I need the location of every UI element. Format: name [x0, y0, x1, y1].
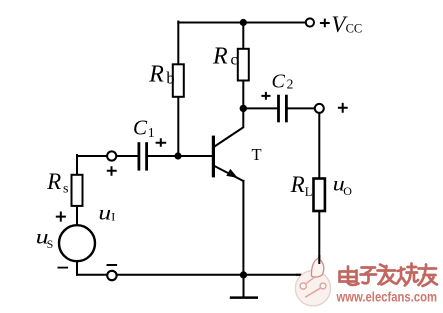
minus sign above bottom terminal [107, 264, 118, 266]
wire R_b branch lower [177, 97, 179, 156]
wire bottom rail end over logo [296, 274, 301, 276]
terminal circle Vcc [306, 18, 314, 26]
plus sign output right [338, 103, 348, 113]
wire R_L bottom [318, 211, 320, 264]
plus sign input top [107, 166, 117, 176]
发 [378, 265, 396, 285]
watermark logo circle [295, 258, 330, 306]
svg-text:R: R [148, 61, 164, 87]
source u_S circle [59, 225, 95, 261]
wire R_c branch upper [242, 23, 244, 49]
resistor R_L [314, 179, 325, 212]
svg-text:C: C [272, 71, 286, 93]
svg-text:R: R [290, 172, 305, 197]
terminal circle input top [107, 151, 116, 160]
wire top rail [178, 22, 305, 24]
svg-text:www.elecfans.com: www.elecfans.com [336, 289, 437, 305]
plus sign right of C1 [156, 138, 167, 147]
junction node base [174, 152, 181, 159]
terminal circle input bottom [107, 271, 116, 280]
wire bottom rail [77, 274, 301, 276]
wire C2 to output terminal [288, 107, 315, 109]
resistor R_s [72, 175, 83, 206]
svg-text:S: S [47, 237, 54, 251]
svg-text:b: b [166, 69, 174, 88]
capacitor C1 [139, 142, 147, 170]
wire R_b branch upper [177, 22, 179, 65]
svg-text:T: T [252, 145, 262, 164]
wire emitter vertical [242, 181, 244, 275]
svg-text:I: I [111, 210, 115, 224]
wire collector lead [215, 108, 243, 146]
烧 [397, 264, 418, 286]
wire input top from corner to terminal [77, 155, 107, 157]
resistor R_b [173, 64, 184, 97]
plus sign left of C2 [261, 92, 270, 100]
wire terminal to C1 plate [116, 155, 137, 157]
transistor T bar [212, 136, 215, 178]
svg-text:R: R [212, 44, 228, 70]
svg-text:2: 2 [287, 77, 294, 92]
wire base horizontal [178, 155, 213, 157]
wire collector node to C2 plate [243, 107, 277, 109]
terminal circle output [315, 104, 324, 113]
wire emitter lead diagonal [215, 166, 244, 181]
junction node emitter-bottom [240, 271, 247, 278]
ground [230, 296, 258, 299]
svg-text:O: O [343, 184, 352, 198]
label +Vcc plus sign [320, 19, 330, 28]
svg-text:L: L [305, 185, 313, 199]
svg-text:1: 1 [148, 126, 155, 141]
svg-text:u: u [98, 202, 111, 224]
wire C1 to base node [148, 155, 178, 157]
wire ground stub [243, 275, 245, 298]
wire left vertical above R_s [76, 155, 78, 175]
minus sign below source [58, 267, 69, 269]
resistor R_c [238, 49, 249, 81]
友 [419, 265, 438, 287]
svg-text:c: c [231, 52, 238, 69]
svg-text:R: R [46, 169, 61, 194]
wire R_c branch lower [242, 81, 244, 109]
电 [340, 267, 359, 285]
wire R_L bottom end over logo [318, 255, 320, 264]
子 [361, 268, 377, 284]
wire source to bottom rail [76, 261, 78, 275]
junction node top rail [240, 19, 247, 26]
svg-text:C: C [133, 115, 148, 139]
svg-text:s: s [63, 182, 68, 197]
watermark text elecfans chinese [340, 264, 438, 287]
wire R_s to source [76, 206, 78, 226]
svg-text:CC: CC [346, 22, 363, 36]
transistor T emitter arrowhead [226, 169, 238, 178]
capacitor C2 [279, 95, 287, 123]
junction node collector [240, 105, 247, 112]
wire output terminal down to R_L [318, 113, 320, 179]
plus sign above source [56, 212, 66, 222]
